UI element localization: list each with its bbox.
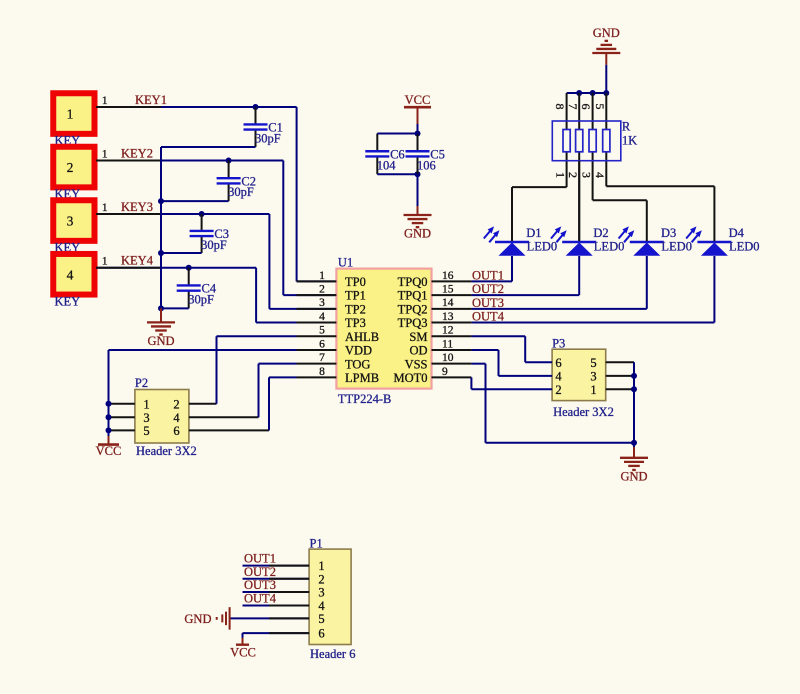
- svg-text:4: 4: [173, 411, 180, 425]
- svg-text:Header 3X2: Header 3X2: [553, 405, 614, 419]
- svg-text:VSS: VSS: [405, 357, 428, 371]
- svg-text:2: 2: [566, 172, 580, 178]
- svg-text:KEY3: KEY3: [121, 200, 153, 214]
- svg-text:1: 1: [102, 202, 108, 214]
- svg-text:OUT3: OUT3: [472, 296, 504, 310]
- svg-text:GND: GND: [147, 334, 174, 348]
- svg-text:OUT2: OUT2: [244, 565, 276, 579]
- svg-text:TPQ0: TPQ0: [398, 275, 428, 289]
- svg-text:D4: D4: [729, 226, 745, 240]
- svg-text:4: 4: [593, 172, 607, 178]
- svg-text:D1: D1: [526, 226, 541, 240]
- svg-text:3: 3: [318, 586, 324, 600]
- svg-text:6: 6: [173, 424, 179, 438]
- svg-text:VDD: VDD: [345, 344, 372, 358]
- svg-text:6: 6: [318, 627, 324, 641]
- svg-text:30pF: 30pF: [188, 292, 214, 306]
- svg-text:OUT1: OUT1: [244, 552, 276, 566]
- svg-text:U1: U1: [338, 256, 353, 270]
- svg-text:TPQ1: TPQ1: [398, 289, 428, 303]
- svg-text:3: 3: [590, 370, 596, 384]
- svg-text:1: 1: [590, 383, 596, 397]
- svg-text:GND: GND: [404, 227, 431, 241]
- svg-text:VCC: VCC: [230, 646, 256, 660]
- svg-text:D3: D3: [661, 226, 676, 240]
- svg-text:2: 2: [173, 397, 179, 411]
- svg-text:TTP224-B: TTP224-B: [338, 392, 391, 406]
- svg-text:P3: P3: [552, 337, 565, 351]
- svg-text:AHLB: AHLB: [345, 330, 379, 344]
- svg-text:1: 1: [102, 256, 108, 268]
- svg-text:Header 3X2: Header 3X2: [136, 444, 197, 458]
- svg-text:1: 1: [67, 107, 74, 122]
- svg-text:P1: P1: [310, 536, 323, 550]
- svg-text:4: 4: [67, 267, 74, 282]
- svg-text:4: 4: [318, 599, 325, 613]
- svg-text:6: 6: [319, 338, 325, 350]
- svg-text:2: 2: [319, 284, 325, 296]
- svg-text:2: 2: [318, 572, 324, 586]
- svg-text:30pF: 30pF: [255, 131, 281, 145]
- svg-text:1: 1: [102, 95, 108, 107]
- svg-text:OUT3: OUT3: [244, 578, 276, 592]
- svg-text:GND: GND: [184, 612, 211, 626]
- svg-text:LED0: LED0: [661, 240, 692, 254]
- svg-text:12: 12: [442, 325, 454, 337]
- svg-text:3: 3: [143, 411, 149, 425]
- svg-text:1: 1: [319, 270, 325, 282]
- svg-text:P2: P2: [135, 376, 148, 390]
- svg-text:D2: D2: [593, 226, 608, 240]
- svg-text:TP3: TP3: [345, 316, 366, 330]
- svg-text:6: 6: [579, 104, 593, 110]
- svg-text:SM: SM: [409, 330, 427, 344]
- svg-text:7: 7: [566, 104, 580, 110]
- svg-text:OUT1: OUT1: [472, 268, 504, 282]
- svg-text:LED0: LED0: [729, 240, 760, 254]
- svg-text:16: 16: [442, 270, 454, 282]
- svg-text:TP1: TP1: [345, 289, 366, 303]
- svg-text:10: 10: [442, 352, 454, 364]
- svg-text:LED0: LED0: [594, 240, 625, 254]
- svg-text:30pF: 30pF: [201, 238, 227, 252]
- svg-text:LPMB: LPMB: [345, 371, 379, 385]
- svg-text:2: 2: [555, 383, 561, 397]
- svg-text:14: 14: [442, 297, 454, 309]
- svg-text:104: 104: [377, 158, 397, 172]
- svg-text:6: 6: [555, 356, 561, 370]
- svg-text:11: 11: [442, 338, 453, 350]
- svg-text:TOG: TOG: [345, 357, 370, 371]
- svg-text:TP2: TP2: [345, 302, 366, 316]
- svg-text:1: 1: [102, 149, 108, 161]
- svg-text:MOT0: MOT0: [393, 371, 427, 385]
- svg-text:1: 1: [318, 559, 324, 573]
- svg-text:30pF: 30pF: [228, 185, 254, 199]
- svg-text:3: 3: [319, 297, 325, 309]
- svg-text:GND: GND: [620, 469, 647, 483]
- svg-text:5: 5: [318, 612, 324, 626]
- svg-text:1: 1: [143, 397, 149, 411]
- svg-text:7: 7: [319, 352, 325, 364]
- svg-text:KEY: KEY: [55, 294, 81, 308]
- svg-text:TP0: TP0: [345, 275, 366, 289]
- svg-text:8: 8: [319, 366, 325, 378]
- svg-text:8: 8: [553, 104, 567, 110]
- svg-text:VCC: VCC: [405, 93, 431, 107]
- svg-text:Header 6: Header 6: [310, 647, 355, 661]
- svg-text:OUT2: OUT2: [472, 282, 504, 296]
- svg-text:106: 106: [417, 158, 436, 172]
- svg-text:5: 5: [590, 356, 596, 370]
- svg-text:OUT4: OUT4: [472, 310, 505, 324]
- svg-text:2: 2: [67, 160, 74, 175]
- svg-text:KEY2: KEY2: [121, 147, 153, 161]
- svg-text:3: 3: [579, 172, 593, 178]
- svg-text:4: 4: [319, 311, 325, 323]
- svg-text:1K: 1K: [622, 134, 637, 148]
- svg-text:KEY1: KEY1: [135, 93, 167, 107]
- svg-text:9: 9: [442, 366, 448, 378]
- svg-text:LED0: LED0: [527, 240, 558, 254]
- svg-text:OD: OD: [409, 344, 427, 358]
- svg-text:KEY4: KEY4: [121, 254, 154, 268]
- svg-text:4: 4: [555, 370, 562, 384]
- svg-text:3: 3: [67, 214, 74, 229]
- svg-text:VCC: VCC: [96, 444, 122, 458]
- svg-text:13: 13: [442, 311, 454, 323]
- svg-text:OUT4: OUT4: [244, 592, 277, 606]
- svg-text:5: 5: [143, 424, 149, 438]
- svg-text:15: 15: [442, 284, 454, 296]
- svg-text:TPQ2: TPQ2: [398, 302, 428, 316]
- svg-text:GND: GND: [593, 26, 620, 40]
- svg-text:5: 5: [593, 104, 607, 110]
- svg-text:1: 1: [553, 172, 567, 178]
- svg-text:TPQ3: TPQ3: [398, 316, 428, 330]
- svg-text:5: 5: [319, 325, 325, 337]
- svg-text:R: R: [622, 120, 631, 134]
